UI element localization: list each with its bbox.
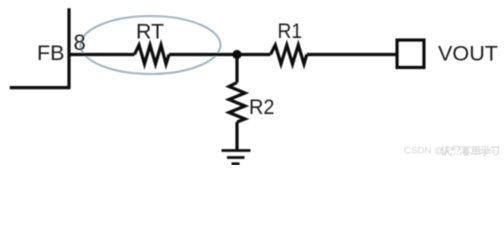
terminal box VOUT xyxy=(397,40,424,67)
wire: RT to node A xyxy=(169,53,237,56)
watermark CSDN @依然要再学习 xyxy=(404,146,444,157)
svg-text:CSDN @: CSDN @ xyxy=(404,146,444,157)
svg-text:8: 8 xyxy=(74,30,86,55)
wire: node A down to R2 xyxy=(235,55,238,83)
svg-text:R1: R1 xyxy=(278,20,303,43)
svg-text:VOUT: VOUT xyxy=(438,43,498,66)
wire: R1 to VOUT terminal xyxy=(307,53,396,56)
resistor R1 xyxy=(271,45,307,64)
annotation ellipse around RT xyxy=(81,16,221,74)
ground xyxy=(222,151,251,164)
svg-text:R2: R2 xyxy=(249,96,275,119)
node A junction dot xyxy=(232,50,241,59)
resistor RT xyxy=(135,45,170,64)
svg-text:FB: FB xyxy=(37,42,65,65)
svg-text:RT: RT xyxy=(136,21,164,44)
resistor R2 xyxy=(229,83,245,123)
wire: node A to R1 xyxy=(237,53,271,56)
wire: FB pin 8 to RT xyxy=(69,53,135,56)
wire: R2 to ground xyxy=(235,122,238,150)
IC U1 corner outline xyxy=(10,8,71,87)
